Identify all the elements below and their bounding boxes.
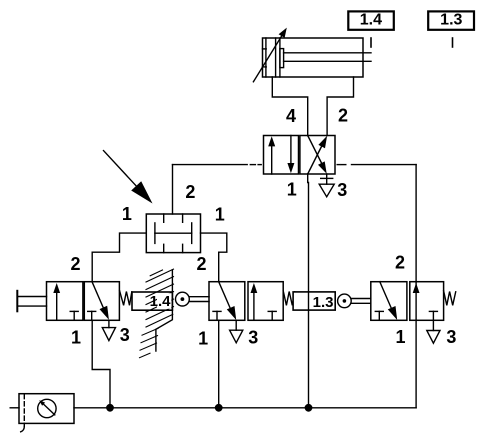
svg-text:1: 1 xyxy=(198,328,208,348)
air service unit body xyxy=(19,394,74,424)
valve 1.1 right position cross arrow 4 to 3 xyxy=(308,136,323,167)
cam label box 1.3 xyxy=(293,292,335,310)
junction dot right xyxy=(305,404,313,412)
valve 1.3 return spring xyxy=(444,291,456,306)
valve 1.2 return spring xyxy=(120,291,132,306)
valve 1.2 right position blocked seat xyxy=(88,310,96,312)
wire two-pressure valve right port to valve 1.4 port 2 xyxy=(201,233,227,282)
position marker tick 1.4 xyxy=(370,38,372,47)
svg-text:3: 3 xyxy=(248,327,258,347)
wire cylinder left port to valve 1.1 port 4 xyxy=(272,77,307,136)
air service unit drain hook xyxy=(21,427,25,432)
cylinder rod collar xyxy=(280,49,284,68)
valve 1.1 left position up arrow xyxy=(271,144,273,174)
svg-text:2: 2 xyxy=(185,182,195,202)
svg-text:1.4: 1.4 xyxy=(360,12,382,29)
valve 1.4 right position blocked seat xyxy=(268,310,276,312)
valve 1.1 left position down arrow xyxy=(290,136,292,166)
wire two-pressure valve left port to valve 1.2 port 2 xyxy=(92,233,146,282)
valve 1.2 left position blocked seat xyxy=(70,310,78,312)
svg-text:1: 1 xyxy=(215,204,225,224)
wire cylinder right port to valve 1.1 port 2 xyxy=(327,77,353,136)
valve 1.3 port 3 exhaust xyxy=(427,331,440,344)
air service unit regulator circle xyxy=(38,399,56,417)
valve 1.2 body xyxy=(47,282,83,321)
cam label box 1.4 xyxy=(132,292,172,310)
valve 1.3 body xyxy=(371,282,407,321)
svg-text:2: 2 xyxy=(395,253,405,273)
valve 1.1 port 3 exhaust xyxy=(326,174,328,184)
roller of valve 1.4 xyxy=(176,292,190,306)
wire valve 1.2 port 1 to manifold xyxy=(92,320,110,408)
svg-text:4: 4 xyxy=(286,106,296,126)
valve 1.4 port 3 exhaust xyxy=(235,320,237,330)
svg-text:1.3: 1.3 xyxy=(313,294,334,311)
valve 1.3 left position diagonal arrow xyxy=(380,282,393,311)
valve 1.1 left pilot line xyxy=(173,164,248,166)
valve 1.4 body xyxy=(209,282,245,321)
svg-text:1.3: 1.3 xyxy=(440,12,462,29)
svg-text:2: 2 xyxy=(70,254,80,274)
valve 1.4 return spring xyxy=(283,291,294,306)
position marker tick 1.3 xyxy=(452,38,454,47)
wire valve 1.1 port 1 crossing over box (redraw) xyxy=(308,292,310,310)
valve 1.2 right position diagonal arrow xyxy=(92,282,105,311)
air service unit regulator arrow xyxy=(44,404,55,415)
junction dot left xyxy=(106,404,114,412)
wire valve 1.3 port 1 to manifold xyxy=(415,320,417,408)
supply manifold wire xyxy=(74,407,416,409)
cam flag wall 1.4 xyxy=(156,270,173,351)
valve 1.3 left position blocked seat xyxy=(375,310,383,312)
valve 1.4 left position diagonal arrow xyxy=(219,282,232,311)
valve 1.3 right position up arrow xyxy=(415,282,417,320)
wire right pilot down to valve 1.3 port 2 xyxy=(415,165,417,282)
svg-text:1.4: 1.4 xyxy=(150,293,172,310)
wire valve 1.1 port 1 to manifold xyxy=(307,174,310,408)
svg-text:3: 3 xyxy=(120,325,130,345)
indicating arrow pointer xyxy=(104,151,137,186)
valve 1.1 right position cross arrow 1 to 2 xyxy=(308,142,324,175)
svg-text:3: 3 xyxy=(337,180,347,200)
svg-text:1: 1 xyxy=(287,179,297,199)
valve 1.1 right pilot line xyxy=(337,164,339,166)
valve 1.4 right position up arrow xyxy=(253,293,255,321)
wire valve 1.4 port 1 to manifold xyxy=(218,320,220,408)
valve 1.3 right position blocked seat xyxy=(429,310,437,312)
svg-text:1: 1 xyxy=(71,328,81,348)
valve 1.2 plunger actuator xyxy=(16,291,18,312)
svg-text:3: 3 xyxy=(446,327,456,347)
cam flag hatching xyxy=(140,269,174,358)
valve 1.2 port 3 exhaust xyxy=(108,320,110,327)
junction dot middle xyxy=(215,404,223,412)
two-pressure valve seat ticks xyxy=(163,214,165,222)
valve 1.2 left position up arrow xyxy=(56,293,58,321)
two-pressure valve body xyxy=(146,214,200,253)
air service unit inlet stub xyxy=(10,407,19,409)
svg-text:2: 2 xyxy=(338,106,348,126)
cylinder piston xyxy=(275,38,277,77)
cylinder left cushion line xyxy=(265,38,267,77)
wire two-pressure valve port 2 to left pilot xyxy=(172,165,174,214)
valve 1.4 left position blocked seat xyxy=(213,310,221,312)
two-pressure valve shuttle xyxy=(155,232,192,234)
air service unit dashed separator xyxy=(23,395,25,427)
cylinder piston rod xyxy=(284,52,371,54)
position label box 1.4 xyxy=(348,11,394,29)
cylinder 1.0 body xyxy=(263,38,364,77)
cushioning adjustment arrow xyxy=(253,36,281,82)
roller of valve 1.3 xyxy=(338,294,352,308)
cylinder cushion stubs xyxy=(263,48,267,50)
svg-text:1: 1 xyxy=(122,204,132,224)
svg-text:1: 1 xyxy=(395,327,405,347)
valve 1.1 four-two impulse valve body xyxy=(264,136,299,175)
position label box 1.3 xyxy=(428,11,474,29)
svg-text:2: 2 xyxy=(196,254,206,274)
